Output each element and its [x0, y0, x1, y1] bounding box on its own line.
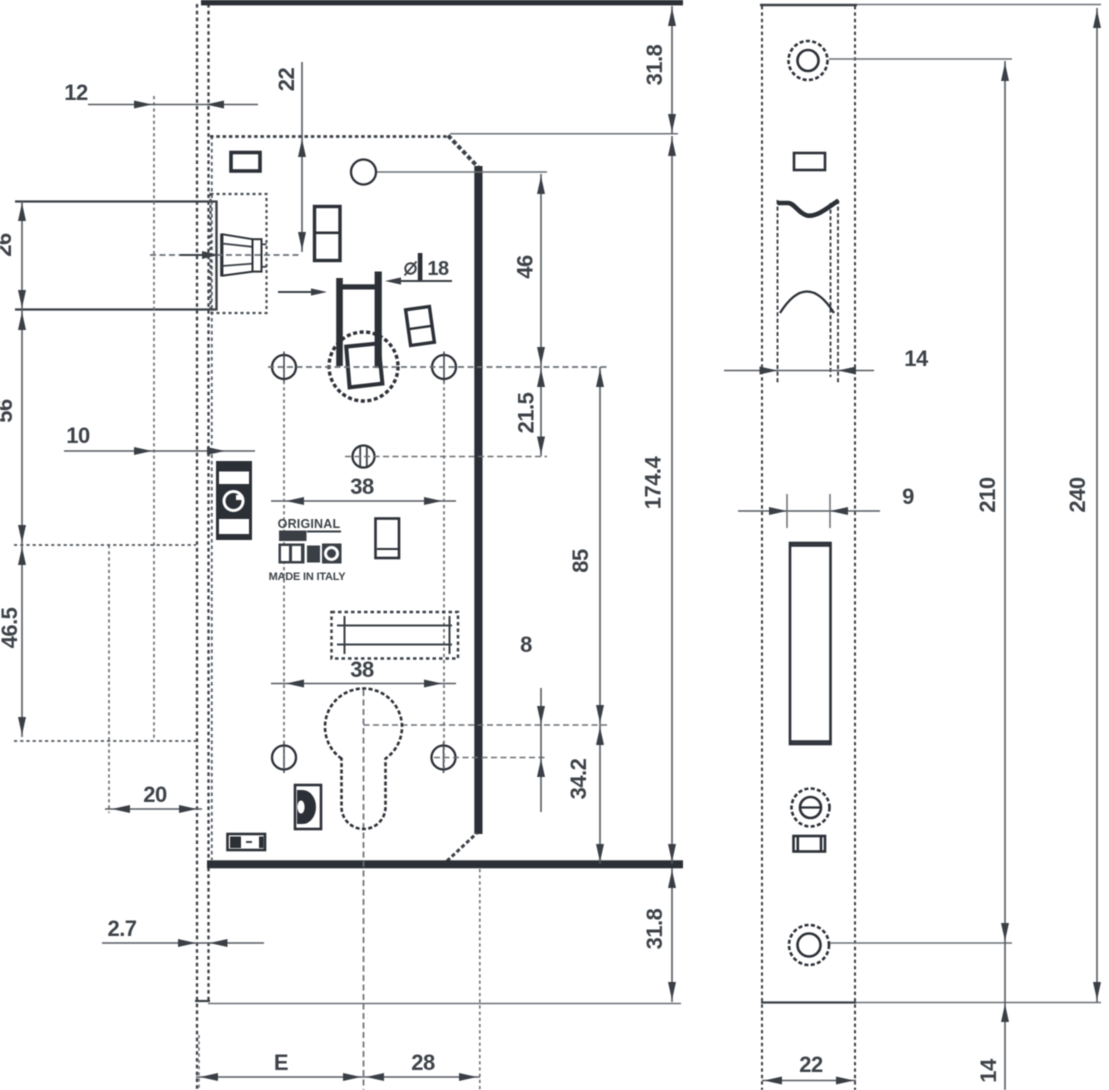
svg-text:46: 46	[512, 255, 537, 279]
svg-text:26: 26	[0, 233, 16, 257]
svg-text:18: 18	[427, 258, 449, 280]
svg-text:31.8: 31.8	[642, 44, 667, 85]
svg-text:38: 38	[350, 474, 374, 499]
svg-text:210: 210	[975, 477, 1000, 512]
svg-text:31.8: 31.8	[642, 908, 667, 949]
svg-text:21.5: 21.5	[513, 392, 538, 433]
svg-text:240: 240	[1065, 477, 1090, 512]
svg-text:14: 14	[904, 346, 929, 371]
svg-text:46.5: 46.5	[0, 607, 22, 648]
svg-text:14: 14	[976, 1058, 1001, 1083]
svg-text:9: 9	[902, 484, 914, 509]
svg-text:38: 38	[350, 657, 374, 682]
svg-text:22: 22	[274, 68, 299, 92]
svg-text:22: 22	[799, 1052, 823, 1077]
svg-text:10: 10	[66, 423, 90, 448]
svg-text:34.2: 34.2	[566, 758, 591, 799]
svg-text:28: 28	[411, 1050, 435, 1075]
svg-text:12: 12	[64, 80, 88, 105]
svg-text:MADE IN ITALY: MADE IN ITALY	[269, 571, 347, 583]
svg-text:8: 8	[520, 632, 532, 657]
svg-text:20: 20	[143, 782, 167, 807]
svg-text:56: 56	[0, 399, 17, 423]
svg-text:ORIGINAL: ORIGINAL	[278, 517, 341, 531]
svg-text:174.4: 174.4	[640, 455, 665, 509]
svg-text:E: E	[274, 1050, 288, 1075]
svg-text:2.7: 2.7	[107, 916, 136, 941]
svg-text:85: 85	[568, 549, 593, 573]
